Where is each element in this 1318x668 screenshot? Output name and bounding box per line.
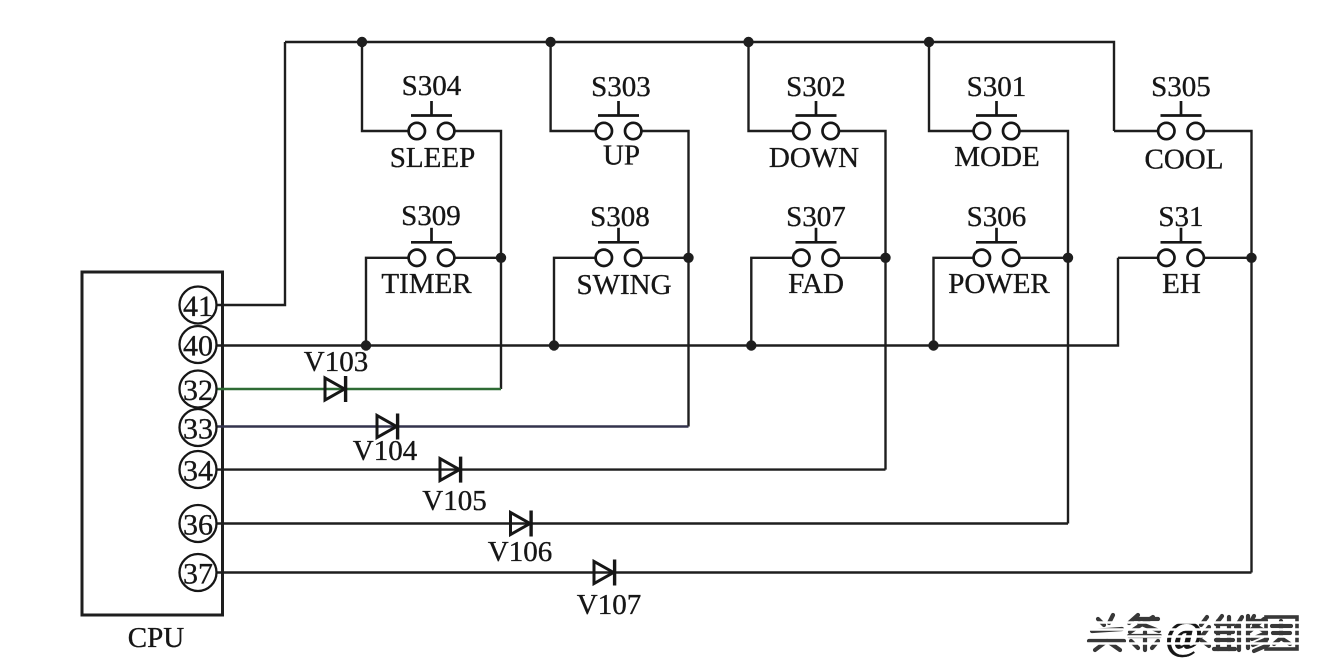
pushbutton S301 xyxy=(974,101,1020,139)
pushbutton S31 xyxy=(1158,228,1204,266)
svg-text:S302: S302 xyxy=(786,71,846,103)
wire bus drop to S304 xyxy=(362,42,409,131)
pin 40 xyxy=(180,326,217,363)
top bus wire (pin 41 row) xyxy=(285,42,1114,131)
wire bus drop to S302 xyxy=(749,42,794,131)
svg-text:POWER: POWER xyxy=(948,268,1050,300)
node line40-S306 xyxy=(928,340,938,350)
svg-text:EH: EH xyxy=(1162,268,1201,300)
wire pin41 to bus xyxy=(216,42,285,305)
svg-text:MODE: MODE xyxy=(954,141,1039,173)
wire pin 34 row xyxy=(216,468,886,470)
wire S308 right xyxy=(641,257,688,259)
char 修 xyxy=(1236,616,1268,651)
svg-text:S309: S309 xyxy=(401,200,461,232)
wire bus drop to S305 xyxy=(1114,130,1158,132)
svg-text:33: 33 xyxy=(183,412,213,445)
wire S31 left to line40 xyxy=(1118,257,1158,259)
node S307-right junction xyxy=(880,253,890,263)
wire bus drop to S301 xyxy=(929,42,974,131)
pushbutton S309 xyxy=(409,228,455,266)
pushbutton S308 xyxy=(596,228,642,266)
wire S306 right xyxy=(1019,257,1068,259)
svg-text:S305: S305 xyxy=(1151,71,1211,103)
wire S306 left to line40 xyxy=(934,258,974,346)
wire S309 left to line40 xyxy=(366,258,409,346)
wire bus drop to S303 xyxy=(551,42,596,131)
svg-text:V105: V105 xyxy=(422,485,486,517)
svg-text:S31: S31 xyxy=(1158,201,1203,233)
wire pin 33 row xyxy=(216,425,689,427)
svg-text:34: 34 xyxy=(183,454,213,487)
pin 33 xyxy=(180,409,217,446)
watermark 头条 @维修圈 xyxy=(1089,615,1160,650)
pin 34 xyxy=(180,451,217,488)
wire pin 36 row xyxy=(216,522,1068,524)
svg-text:V107: V107 xyxy=(577,589,641,621)
node S31-right junction xyxy=(1246,253,1256,263)
wire S302 right to S307 right to pin34 line xyxy=(839,131,886,470)
pin 32 xyxy=(180,371,217,408)
node bus-S301 xyxy=(924,37,934,47)
node S306-right junction xyxy=(1063,253,1073,263)
char 维 xyxy=(1201,616,1235,649)
pin 41 xyxy=(180,287,217,324)
svg-text:SWING: SWING xyxy=(576,269,671,301)
char 条 xyxy=(1129,615,1160,650)
wire S31 right xyxy=(1204,257,1252,259)
svg-text:UP: UP xyxy=(603,140,640,172)
svg-text:V103: V103 xyxy=(304,346,368,378)
wire S301 right to S306 right to pin36 line xyxy=(1019,131,1068,524)
char 头 xyxy=(1089,615,1124,650)
wire S307 left to line40 xyxy=(751,258,793,346)
node line40-S309 xyxy=(361,340,371,350)
svg-text:S306: S306 xyxy=(967,201,1027,233)
wire S303 right to S308 right to pin33 line xyxy=(641,131,688,427)
svg-text:36: 36 xyxy=(183,508,213,541)
svg-text:DOWN: DOWN xyxy=(769,142,859,174)
diode V103 xyxy=(325,376,346,402)
CPU box U1 xyxy=(82,272,223,615)
svg-text:CPU: CPU xyxy=(128,622,184,654)
svg-text:32: 32 xyxy=(183,374,213,407)
wire line 40 (pin 40 row) xyxy=(216,258,1118,346)
svg-text:SLEEP: SLEEP xyxy=(390,142,475,174)
pushbutton S302 xyxy=(793,101,839,139)
svg-text:41: 41 xyxy=(183,290,213,323)
diode V105 xyxy=(440,457,461,483)
pushbutton S303 xyxy=(596,101,642,139)
svg-text:S301: S301 xyxy=(967,71,1027,103)
svg-text:FAD: FAD xyxy=(788,268,844,300)
pushbutton S307 xyxy=(793,228,839,266)
pin 36 xyxy=(180,505,217,542)
svg-text:V104: V104 xyxy=(353,435,418,467)
pushbutton S304 xyxy=(409,101,455,139)
node bus-S304 xyxy=(357,37,367,47)
svg-text:S304: S304 xyxy=(402,70,462,102)
char 圈 xyxy=(1266,617,1297,649)
watermark stripes xyxy=(1086,623,1318,644)
node S309-right junction xyxy=(496,253,506,263)
svg-text:S303: S303 xyxy=(591,71,651,103)
diode V106 xyxy=(511,511,532,537)
diode V107 xyxy=(594,560,615,586)
svg-text:@: @ xyxy=(1165,612,1203,658)
wire S305 right to S31 right to pin37 line xyxy=(1204,131,1252,573)
pin 37 xyxy=(180,554,217,591)
svg-text:37: 37 xyxy=(183,557,213,590)
node S308-right junction xyxy=(683,253,693,263)
svg-text:S308: S308 xyxy=(590,201,650,233)
pushbutton S306 xyxy=(974,228,1020,266)
svg-text:COOL: COOL xyxy=(1145,144,1224,176)
node line40-S307 xyxy=(746,340,756,350)
pushbutton S305 xyxy=(1158,101,1204,139)
node bus-S302 xyxy=(743,37,753,47)
svg-text:S307: S307 xyxy=(786,201,846,233)
wire S308 left to line40 xyxy=(554,258,596,346)
node bus-S303 xyxy=(545,37,555,47)
svg-text:V106: V106 xyxy=(488,536,552,568)
wire pin 37 row xyxy=(216,571,1252,573)
wire S304 right to S309 right to pin32 line xyxy=(454,131,501,389)
svg-text:40: 40 xyxy=(183,329,213,362)
wire pin 32 row xyxy=(216,388,501,390)
wire S309 right xyxy=(454,257,501,259)
node line40-S308 xyxy=(549,340,559,350)
svg-text:TIMER: TIMER xyxy=(381,268,472,300)
wire S307 right xyxy=(839,257,886,259)
diode V104 xyxy=(377,414,398,440)
